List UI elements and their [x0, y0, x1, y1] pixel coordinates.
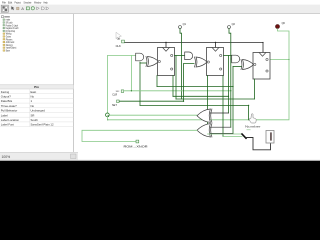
wire bus to display [246, 138, 271, 150]
wire bus y105.4 [140, 104, 249, 106]
cursor arrow [116, 33, 121, 40]
wire from pin Q2 down [229, 29, 231, 59]
left explorer panel [0, 14, 74, 160]
wire clock drop to U3 [262, 43, 264, 53]
toolbar [0, 5, 320, 14]
wire bus y98.8 [176, 98, 255, 100]
toolbar icon: arrow [11, 6, 14, 10]
svg-text:Label Font: Label Font [1, 123, 14, 127]
xor gate G4 [195, 57, 208, 67]
wire riser x230.8 [230, 59, 232, 127]
svg-text:SET: SET [112, 104, 117, 107]
pin CLK [116, 38, 125, 48]
svg-text:38C: 38C [116, 91, 120, 93]
xor gate G8 (west facing) [197, 124, 212, 137]
svg-text:100%: 100% [2, 155, 11, 159]
flip-flop U3 [253, 53, 270, 80]
hex display DS1 [266, 131, 274, 144]
wire under U2 left [207, 76, 209, 135]
wire splitter bit lines [208, 134, 243, 137]
project tree [2, 16, 10, 18]
wire U2 Q to G5 [224, 55, 232, 57]
wire from pin Q1 down [180, 29, 182, 99]
xor gate G6 [241, 60, 254, 70]
wire under U1 right [172, 76, 174, 97]
svg-text:Pin: Pin [34, 85, 39, 89]
svg-text:East: East [31, 90, 37, 94]
wire G8 output to ROM pin [82, 130, 197, 141]
wire G6 lower input [233, 66, 241, 68]
svg-text:SR: SR [31, 113, 35, 117]
svg-text:CLK: CLK [116, 44, 121, 48]
wire G4 lower input riser [184, 64, 195, 102]
svg-text:Edit: Edit [8, 1, 12, 5]
wire riser x136.8 [139, 62, 141, 105]
wire Q output of U3 [270, 59, 289, 61]
wire U1 Q branch down [175, 56, 177, 100]
svg-text:Unchanged: Unchanged [31, 109, 46, 113]
label value mark [247, 129, 251, 130]
svg-text:Number: Number [245, 124, 261, 128]
toolbar icon: pin circle [31, 7, 34, 10]
svg-text:Q1: Q1 [183, 23, 187, 26]
svg-text:Simulate: Simulate [24, 1, 32, 5]
splitter SP1 [242, 134, 246, 138]
pin CLR [112, 90, 124, 97]
svg-text:Base: Base [6, 50, 10, 53]
wire G8 upper input [210, 126, 230, 128]
wire clock drop to U2 [215, 43, 217, 48]
pin Q1 [179, 23, 187, 28]
svg-text:Q0: Q0 [282, 22, 286, 25]
svg-text:No: No [31, 95, 35, 99]
wire SET line [120, 100, 184, 102]
wire from LED to feedback loop [210, 29, 289, 120]
pin SET [112, 100, 119, 107]
svg-text:South: South [31, 118, 39, 122]
wire riser x233 [232, 67, 234, 134]
svg-text:Label Location: Label Location [1, 118, 20, 122]
attribute table [0, 85, 74, 89]
wire node down to XNOR output line [106, 117, 108, 120]
pin Q2 [228, 23, 236, 28]
wire XOR4 output to node [109, 114, 197, 116]
wire XOR1 lower input [140, 62, 146, 64]
svg-text:Facing: Facing [1, 90, 10, 94]
flip-flop U2 [207, 48, 224, 76]
node junction dots [107, 42, 289, 121]
wire under U2 right [222, 76, 224, 137]
poke cursor icon [249, 114, 256, 123]
svg-text:ROM→XNOR: ROM→XNOR [124, 146, 148, 149]
xor gate G7 (west facing) [197, 109, 212, 122]
wire bus y85.8 [157, 86, 233, 88]
node junction circle [106, 113, 110, 117]
menu bar [2, 1, 48, 5]
wire riser x228.5 [228, 56, 230, 114]
and gate G1 [136, 53, 144, 61]
svg-text:CLR: CLR [112, 94, 117, 97]
svg-text:SansSerif Plain 12: SansSerif Plain 12 [31, 123, 54, 127]
toolbar icon: pin square [26, 7, 29, 10]
wire clock drop to U1 [165, 43, 167, 48]
wire CLK main clock line [125, 42, 263, 44]
svg-text:Data Bits: Data Bits [1, 99, 13, 103]
wire under U1 left [156, 76, 158, 87]
svg-text:Output?: Output? [1, 95, 11, 99]
wire CLR line [124, 90, 231, 92]
wire bus y96.3 [173, 95, 229, 97]
svg-text:No: No [31, 104, 35, 108]
LED Q0 [276, 22, 286, 29]
wire G8 lower input [210, 132, 233, 134]
status bar [0, 152, 78, 160]
wire node to XOR4 lower input [107, 119, 210, 121]
svg-text:Window: Window [34, 1, 42, 5]
letterbox black bar [0, 161, 320, 180]
and gate G5 [232, 55, 240, 63]
flip-flop U1 [158, 48, 175, 76]
toolbar icon: or gate [46, 7, 49, 10]
xor gate G2 [146, 57, 159, 67]
svg-text:File: File [2, 1, 6, 5]
wire G7 upper input [210, 112, 228, 114]
wire U1 Q to G3 [175, 55, 185, 57]
wire left feedback loop [107, 56, 135, 113]
toolbar icon: hand [17, 7, 20, 10]
window bottom edge [0, 159, 320, 161]
svg-text:Pull Behavior: Pull Behavior [1, 109, 18, 113]
svg-text:A: A [21, 6, 24, 11]
wire under U3 [254, 79, 256, 99]
svg-text:Help: Help [44, 1, 48, 5]
svg-text:Q2: Q2 [232, 23, 236, 26]
wire light riser branch [130, 56, 132, 91]
svg-text:Label: Label [1, 113, 8, 117]
toolbar icon: not gate [37, 7, 40, 10]
toolbar icon: chip button [1, 5, 8, 12]
wire riser x248.6 [248, 105, 250, 119]
toolbar icon: and gate [41, 7, 44, 10]
svg-text:Project: Project [15, 1, 22, 5]
and gate G3 [185, 52, 193, 60]
pin ROM-XNOR [124, 140, 148, 148]
svg-text:Three-state?: Three-state? [1, 104, 17, 108]
window background [0, 0, 320, 161]
